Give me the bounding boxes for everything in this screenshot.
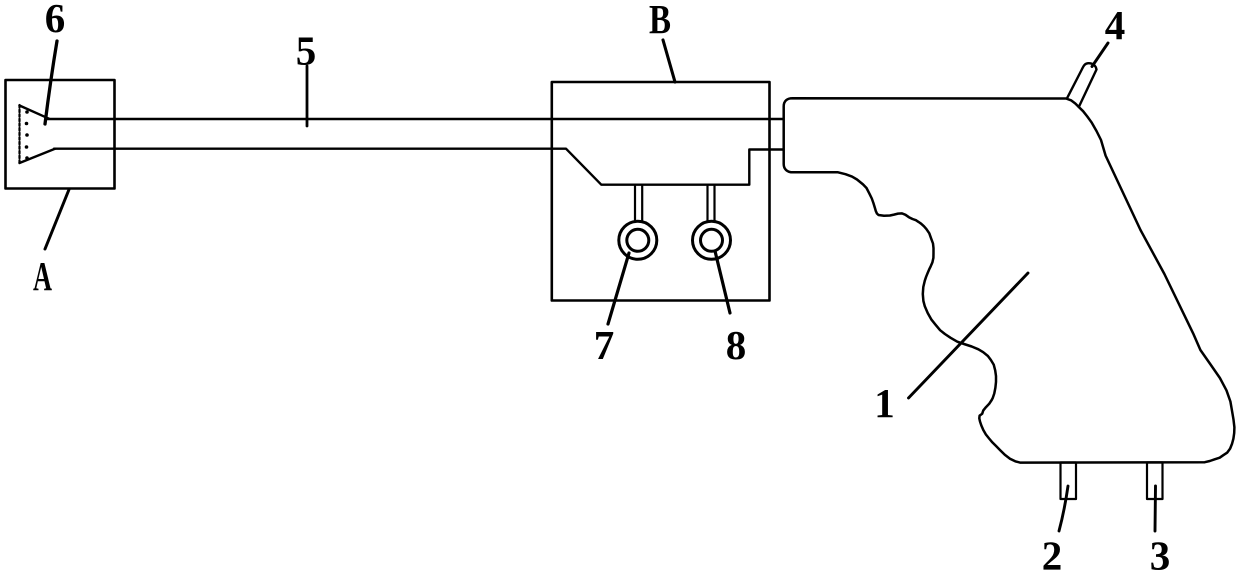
svg-text:7: 7 (594, 322, 615, 368)
svg-text:2: 2 (1042, 533, 1063, 575)
svg-text:A: A (33, 253, 52, 299)
svg-text:6: 6 (45, 0, 66, 41)
svg-text:5: 5 (296, 28, 317, 74)
svg-text:3: 3 (1150, 533, 1171, 575)
svg-text:8: 8 (726, 322, 747, 368)
svg-text:4: 4 (1105, 2, 1126, 48)
svg-text:1: 1 (874, 380, 895, 426)
svg-text:B: B (649, 0, 671, 42)
